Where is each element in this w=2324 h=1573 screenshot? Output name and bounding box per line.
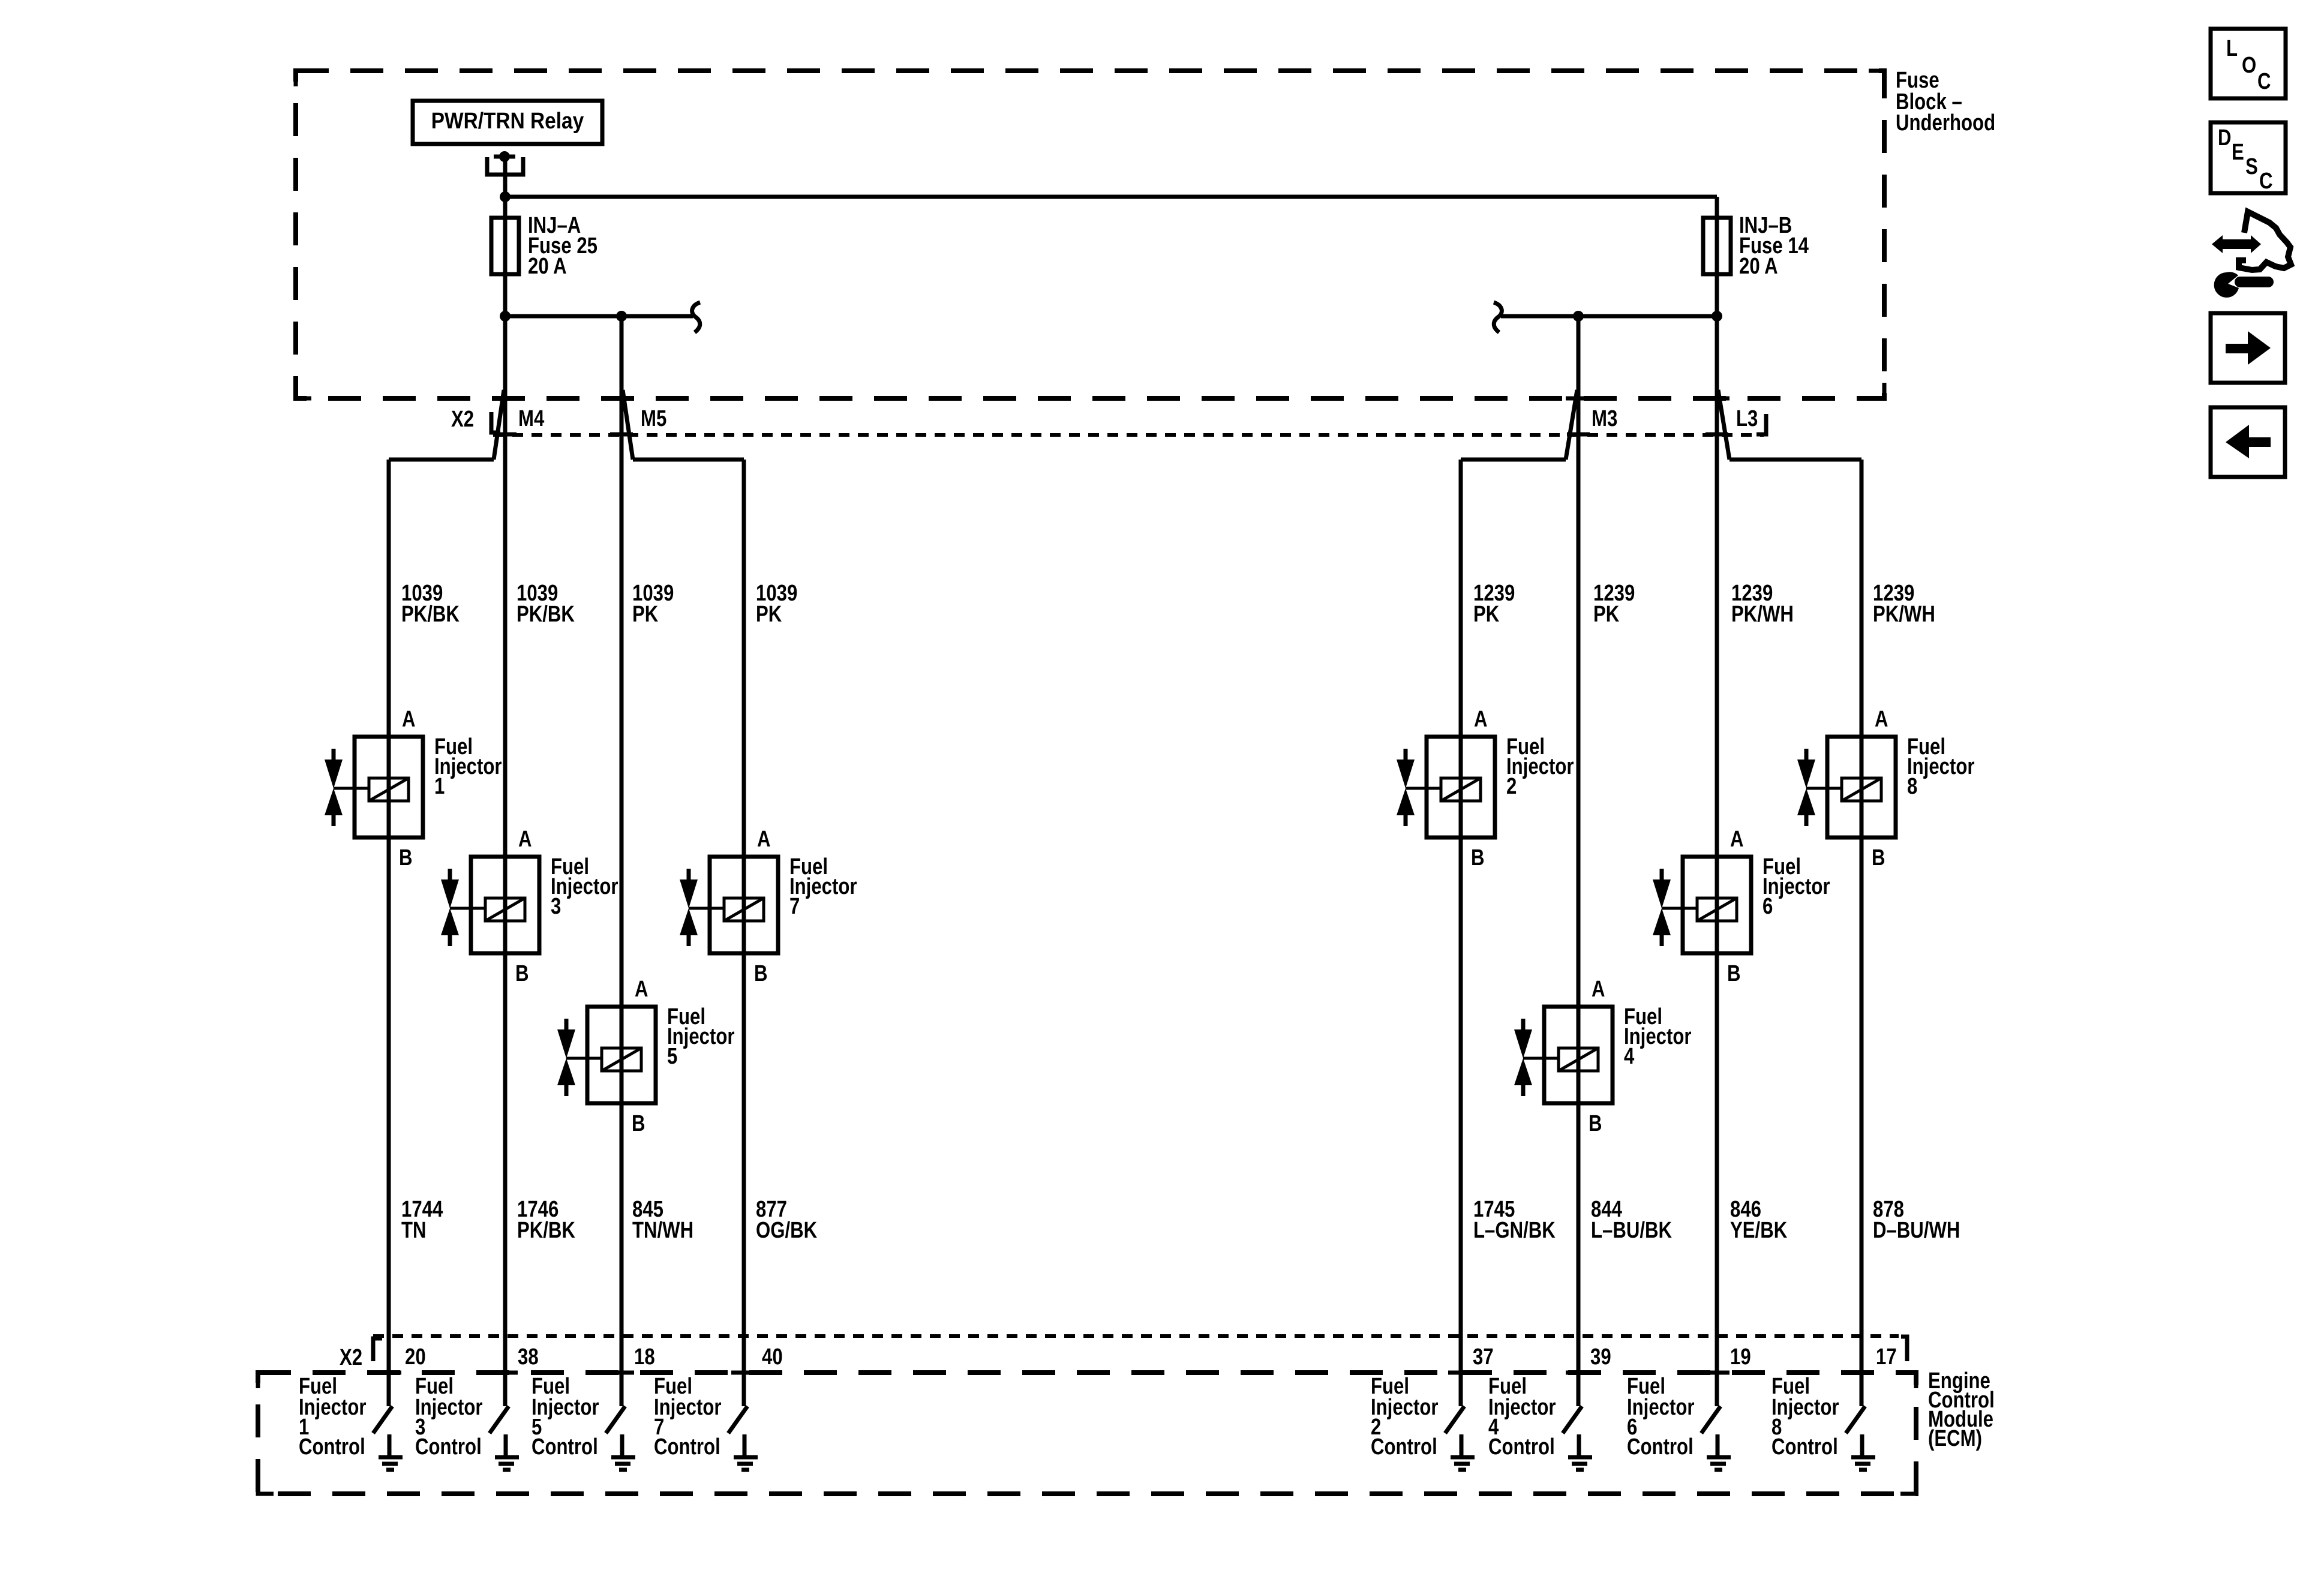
svg-text:B: B <box>1872 845 1885 870</box>
svg-text:X2: X2 <box>451 407 474 432</box>
wire: M5 column injector5 <box>620 316 624 1406</box>
svg-text:B: B <box>1471 845 1485 870</box>
icon LOC button <box>2211 29 2286 98</box>
svg-text:O: O <box>2242 53 2256 78</box>
svg-text:S: S <box>2245 154 2258 179</box>
wire splice row right (fuse B output) <box>1501 314 1717 319</box>
fuse INJ-B Fuse 14 <box>1703 213 1809 279</box>
svg-text:17: 17 <box>1876 1344 1897 1370</box>
svg-text:PK/BK: PK/BK <box>517 602 575 627</box>
ground (injector 6 driver) <box>1707 1434 1731 1470</box>
ground (injector 2 driver) <box>1451 1434 1475 1470</box>
svg-text:M4: M4 <box>518 406 545 431</box>
wire label 878 D&#8211;BU/WH <box>1873 1197 1960 1243</box>
svg-text:TN: TN <box>401 1218 427 1243</box>
engine control module dashed box <box>258 1373 1916 1494</box>
svg-text:PK: PK <box>1593 602 1619 627</box>
svg-text:Control: Control <box>415 1434 482 1460</box>
label Engine Control Module (ECM) <box>1928 1368 1995 1451</box>
PWR/TRN Relay box <box>413 101 602 144</box>
svg-text:(ECM): (ECM) <box>1928 1426 1982 1451</box>
svg-text:X2: X2 <box>340 1345 362 1370</box>
fuel injector 3 <box>441 827 618 986</box>
label Fuel Injector 5 Control <box>532 1374 599 1460</box>
label Fuel Injector 6 Control <box>1627 1374 1695 1460</box>
ground (injector 3 driver) <box>495 1434 519 1470</box>
ground (injector 8 driver) <box>1851 1434 1875 1470</box>
svg-text:YE/BK: YE/BK <box>1730 1218 1787 1243</box>
svg-text:A: A <box>635 977 648 1002</box>
wire label 844 L&#8211;BU/BK <box>1591 1197 1672 1243</box>
junction node M4 <box>500 311 511 322</box>
connector line X2 (bottom) <box>373 1334 1899 1338</box>
fuel injector 7 <box>680 827 857 986</box>
junction node M5 <box>616 311 627 322</box>
icon next arrow button <box>2211 313 2285 383</box>
svg-text:7: 7 <box>789 894 800 919</box>
svg-text:3: 3 <box>551 894 561 919</box>
fuel injector 2 <box>1397 707 1574 870</box>
ECM driver switch for injector 7 <box>728 1406 747 1433</box>
connector bracket pin 17 <box>1901 1337 1907 1361</box>
pin L3 <box>1706 390 1758 460</box>
wire break symbol left <box>692 302 700 332</box>
svg-text:B: B <box>1727 961 1741 986</box>
ground (injector 7 driver) <box>734 1434 758 1470</box>
connector line X2 (top) <box>493 433 1764 437</box>
connector pass-through ticks on fuse block edge <box>493 397 518 401</box>
svg-text:A: A <box>757 827 771 852</box>
wire branch to injector2 <box>1461 458 1566 462</box>
svg-text:D: D <box>2218 125 2232 151</box>
svg-text:Control: Control <box>1488 1434 1555 1460</box>
wire label 846 YE/BK <box>1730 1197 1787 1243</box>
wire label 877 OG/BK <box>756 1197 817 1243</box>
svg-text:C: C <box>2259 169 2273 194</box>
wire branch to injector8 <box>1730 458 1861 462</box>
connector bracket L3 top <box>1756 414 1766 434</box>
svg-text:B: B <box>399 845 413 870</box>
svg-text:L–GN/BK: L–GN/BK <box>1473 1218 1556 1243</box>
svg-text:M5: M5 <box>641 406 666 431</box>
svg-text:19: 19 <box>1730 1344 1751 1370</box>
wire branch to injector7 <box>633 458 744 462</box>
ECM driver switch for injector 5 <box>606 1406 625 1433</box>
wire label 1239 PK <box>1473 581 1515 627</box>
pin M3 <box>1566 390 1617 460</box>
ECM driver switch for injector 6 <box>1701 1406 1721 1433</box>
ECM driver switch for injector 2 <box>1445 1406 1464 1433</box>
wire: M3 column injector4 <box>1577 316 1581 1406</box>
ground (injector 5 driver) <box>611 1434 635 1470</box>
ECM driver switch for injector 8 <box>1846 1406 1865 1433</box>
svg-text:Control: Control <box>1627 1434 1694 1460</box>
wire splice row left (fuse A output) <box>505 314 693 319</box>
wire label 1745 L&#8211;GN/BK <box>1473 1197 1556 1243</box>
svg-text:B: B <box>754 961 768 986</box>
wire label 1239 PK/WH <box>1731 581 1794 627</box>
junction node M3 <box>1573 311 1584 322</box>
pin M5 <box>610 390 666 460</box>
svg-text:PK/WH: PK/WH <box>1731 602 1794 627</box>
fuse block underhood dashed box <box>296 71 1884 398</box>
svg-text:PK/BK: PK/BK <box>401 602 460 627</box>
wire: injector8 column <box>1860 460 1864 1406</box>
svg-text:2: 2 <box>1506 774 1517 799</box>
bus wire from relay to INJ-B fuse <box>505 195 1717 199</box>
svg-text:37: 37 <box>1473 1344 1494 1370</box>
svg-text:B: B <box>1589 1111 1602 1136</box>
svg-text:PK: PK <box>756 602 782 627</box>
svg-text:8: 8 <box>1907 774 1917 799</box>
wire label 1039 PK/BK <box>401 581 460 627</box>
wire branch to injector1 <box>389 458 494 462</box>
fuel injector 6 <box>1653 827 1830 986</box>
svg-text:20 A: 20 A <box>1739 254 1778 279</box>
wire label 1039 PK <box>632 581 674 627</box>
wire label 845 TN/WH <box>632 1197 693 1243</box>
wire label 1239 PK <box>1593 581 1635 627</box>
svg-text:A: A <box>518 827 532 852</box>
wire: injector1 column <box>387 460 391 1406</box>
icon wiring/repair (double arrow, part outline, wrench) <box>2212 212 2291 298</box>
label Fuel Injector 4 Control <box>1488 1374 1556 1460</box>
svg-text:L–BU/BK: L–BU/BK <box>1591 1218 1672 1243</box>
svg-text:PWR/TRN Relay: PWR/TRN Relay <box>431 108 584 133</box>
svg-text:4: 4 <box>1624 1044 1635 1069</box>
svg-text:18: 18 <box>634 1344 655 1370</box>
pin pass-through ticks on ECM edge <box>376 1371 401 1375</box>
svg-text:Control: Control <box>532 1434 598 1460</box>
svg-text:A: A <box>1474 707 1488 732</box>
svg-text:E: E <box>2232 140 2244 165</box>
ECM driver switch for injector 3 <box>490 1406 509 1433</box>
wire label 1746 PK/BK <box>517 1197 575 1243</box>
svg-text:Control: Control <box>1771 1434 1838 1460</box>
wire break symbol right <box>1494 302 1502 332</box>
wire label 1744 TN <box>401 1197 443 1243</box>
svg-text:40: 40 <box>762 1344 783 1370</box>
ground (injector 4 driver) <box>1568 1434 1592 1470</box>
svg-text:A: A <box>1875 707 1888 732</box>
svg-text:M3: M3 <box>1592 406 1617 431</box>
svg-text:Control: Control <box>299 1434 365 1460</box>
svg-text:B: B <box>632 1111 645 1136</box>
svg-text:A: A <box>1592 977 1605 1002</box>
junction node at relay output <box>500 191 511 202</box>
wire: bus to fuse B down column L3/injector6 <box>1715 197 1719 1406</box>
svg-text:PK: PK <box>632 602 658 627</box>
fuel injector 1 <box>325 707 502 870</box>
ground (injector 1 driver) <box>379 1434 403 1470</box>
label Fuel Injector 2 Control <box>1371 1374 1439 1460</box>
svg-text:Underhood: Underhood <box>1896 110 1995 136</box>
label Fuel Injector 3 Control <box>415 1374 483 1460</box>
wire: injector2 column <box>1459 460 1463 1406</box>
svg-text:5: 5 <box>667 1044 677 1069</box>
svg-text:Control: Control <box>654 1434 720 1460</box>
fuse block box corner marks <box>296 71 311 86</box>
ECM driver switch for injector 1 <box>373 1406 392 1433</box>
fuel injector 8 <box>1797 707 1975 870</box>
label Fuel Injector 7 Control <box>654 1374 722 1460</box>
svg-text:39: 39 <box>1590 1344 1611 1370</box>
svg-text:TN/WH: TN/WH <box>632 1218 693 1243</box>
svg-text:OG/BK: OG/BK <box>756 1218 817 1243</box>
label Fuse Block Underhood <box>1896 68 1995 136</box>
wire label 1039 PK/BK <box>517 581 575 627</box>
svg-text:6: 6 <box>1762 894 1773 919</box>
wire: injector7 column <box>742 460 746 1406</box>
svg-text:A: A <box>402 707 416 732</box>
junction node L3 <box>1712 311 1722 322</box>
svg-text:PK: PK <box>1473 602 1499 627</box>
wire label 1039 PK <box>756 581 797 627</box>
pin M4 <box>494 390 545 460</box>
svg-text:B: B <box>515 961 529 986</box>
svg-text:1: 1 <box>434 774 445 799</box>
fuel injector 5 <box>557 977 735 1136</box>
svg-text:38: 38 <box>518 1344 539 1370</box>
ECM driver switch for injector 4 <box>1563 1406 1582 1433</box>
svg-text:A: A <box>1730 827 1744 852</box>
svg-text:C: C <box>2257 69 2271 94</box>
svg-text:PK/WH: PK/WH <box>1873 602 1935 627</box>
label Fuel Injector 1 Control <box>299 1374 367 1460</box>
svg-text:L3: L3 <box>1736 406 1758 431</box>
icon back arrow button <box>2211 407 2285 477</box>
label Fuel Injector 8 Control <box>1771 1374 1839 1460</box>
icon DESC button <box>2211 122 2286 194</box>
fuse INJ-A Fuse 25 <box>491 213 597 279</box>
ECM box corner marks <box>258 1373 274 1388</box>
svg-text:20 A: 20 A <box>528 254 567 279</box>
connector bracket X2 bottom <box>373 1338 382 1361</box>
connector bracket X2 top <box>491 412 500 433</box>
wire label 1239 PK/WH <box>1873 581 1935 627</box>
svg-text:D–BU/WH: D–BU/WH <box>1873 1218 1960 1243</box>
relay output terminal <box>487 151 523 175</box>
svg-text:Control: Control <box>1371 1434 1437 1460</box>
fuel injector 4 <box>1514 977 1692 1136</box>
svg-text:L: L <box>2226 36 2238 61</box>
wire: relay output to fuse A and down column M4/injector3 <box>503 157 508 1406</box>
svg-text:20: 20 <box>405 1344 426 1370</box>
svg-text:PK/BK: PK/BK <box>517 1218 575 1243</box>
